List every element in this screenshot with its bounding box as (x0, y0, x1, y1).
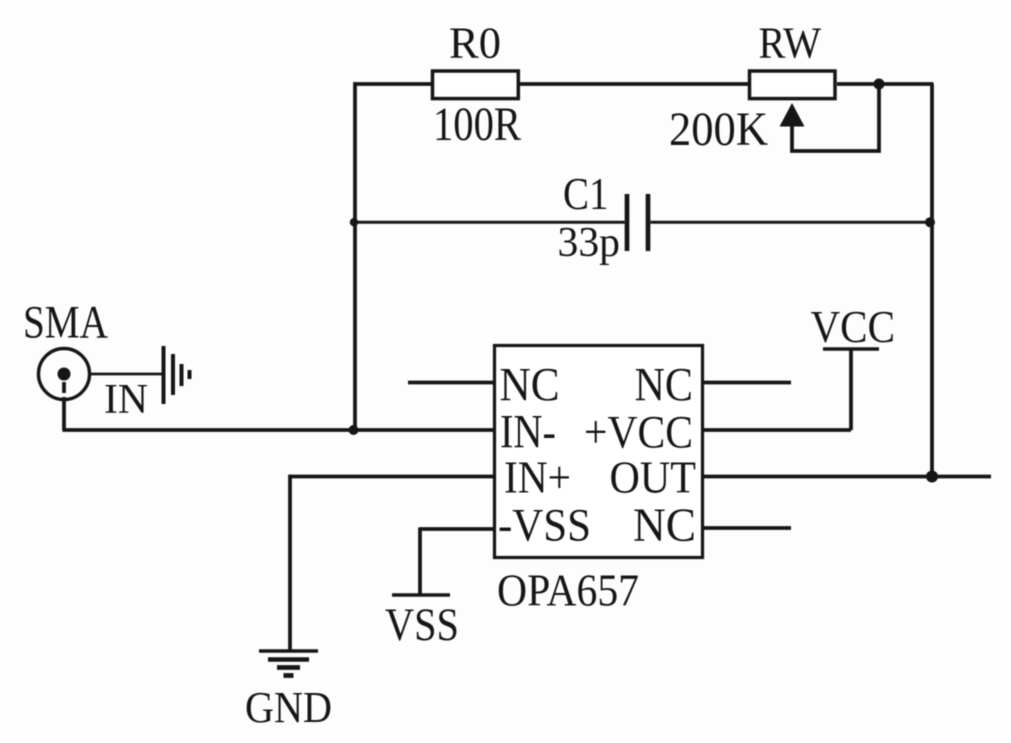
potentiometer RW body (750, 71, 836, 99)
SMA center pin dot (58, 368, 71, 381)
svg-text:RW: RW (759, 19, 822, 68)
SMA connector circle (39, 349, 90, 400)
svg-text:VSS: VSS (385, 599, 459, 651)
SMA pin dash (62, 382, 66, 393)
svg-text:NC: NC (500, 359, 560, 412)
power VCC terminal bar (823, 347, 879, 350)
wire RW to top-right corner (837, 82, 934, 86)
wire right vertical (930, 84, 934, 477)
wire C1 right segment (651, 221, 933, 224)
wire +VCC pin horizontal (703, 428, 851, 432)
wire IN- horizontal from SMA to chip (62, 428, 494, 432)
svg-text:OUT: OUT (610, 452, 697, 503)
svg-text:33p: 33p (558, 220, 621, 266)
svg-text:SMA: SMA (23, 298, 108, 349)
svg-text:NC: NC (633, 500, 696, 552)
wire C1 left segment (355, 221, 625, 224)
svg-text:R0: R0 (449, 19, 501, 68)
wire VSS down (418, 527, 422, 595)
wire OUT pin to right edge (703, 475, 991, 479)
wire R0 to RW (520, 82, 748, 86)
wire top-left segment to R0 (354, 82, 432, 86)
chassis ground (rotated bars) (162, 346, 166, 404)
junction C1 left (350, 218, 358, 226)
wire -VSS pin horizontal (420, 527, 494, 531)
wire SMA stub to chassis ground (90, 373, 163, 376)
resistor R0 (433, 71, 519, 99)
svg-text:C1: C1 (563, 168, 609, 219)
op-amp U1 OPA657 body (495, 346, 703, 558)
svg-text:VCC: VCC (811, 301, 896, 352)
wire left vertical feedback (353, 82, 357, 430)
junction feedback/IN- (349, 425, 359, 435)
svg-text:NC: NC (635, 360, 694, 412)
svg-text:GND: GND (245, 683, 332, 732)
wire IN+ pin horizontal (290, 475, 494, 479)
ground GND bars (259, 649, 318, 652)
capacitor C1 plates (625, 194, 630, 251)
junction wiper/top wire (874, 79, 885, 90)
svg-text:-VSS: -VSS (498, 500, 591, 552)
wire IN+ down to ground (288, 475, 292, 651)
junction OUT/right vertical (926, 471, 938, 483)
wire SMA down (62, 397, 66, 430)
wire wiper down-right-up (792, 84, 879, 151)
wire VCC up (849, 349, 853, 430)
junction C1 right (925, 217, 935, 227)
wiper arrow of RW (780, 103, 805, 127)
svg-text:OPA657: OPA657 (497, 565, 639, 616)
power VSS terminal bar (392, 593, 450, 596)
svg-text:200K: 200K (669, 103, 768, 156)
svg-text:100R: 100R (433, 98, 521, 151)
wire NC right-bottom pin (703, 526, 791, 530)
svg-text:IN: IN (104, 376, 148, 423)
wire NC right-top pin (703, 381, 791, 385)
svg-text:IN+: IN+ (504, 452, 571, 503)
wire NC left pin (408, 381, 494, 385)
